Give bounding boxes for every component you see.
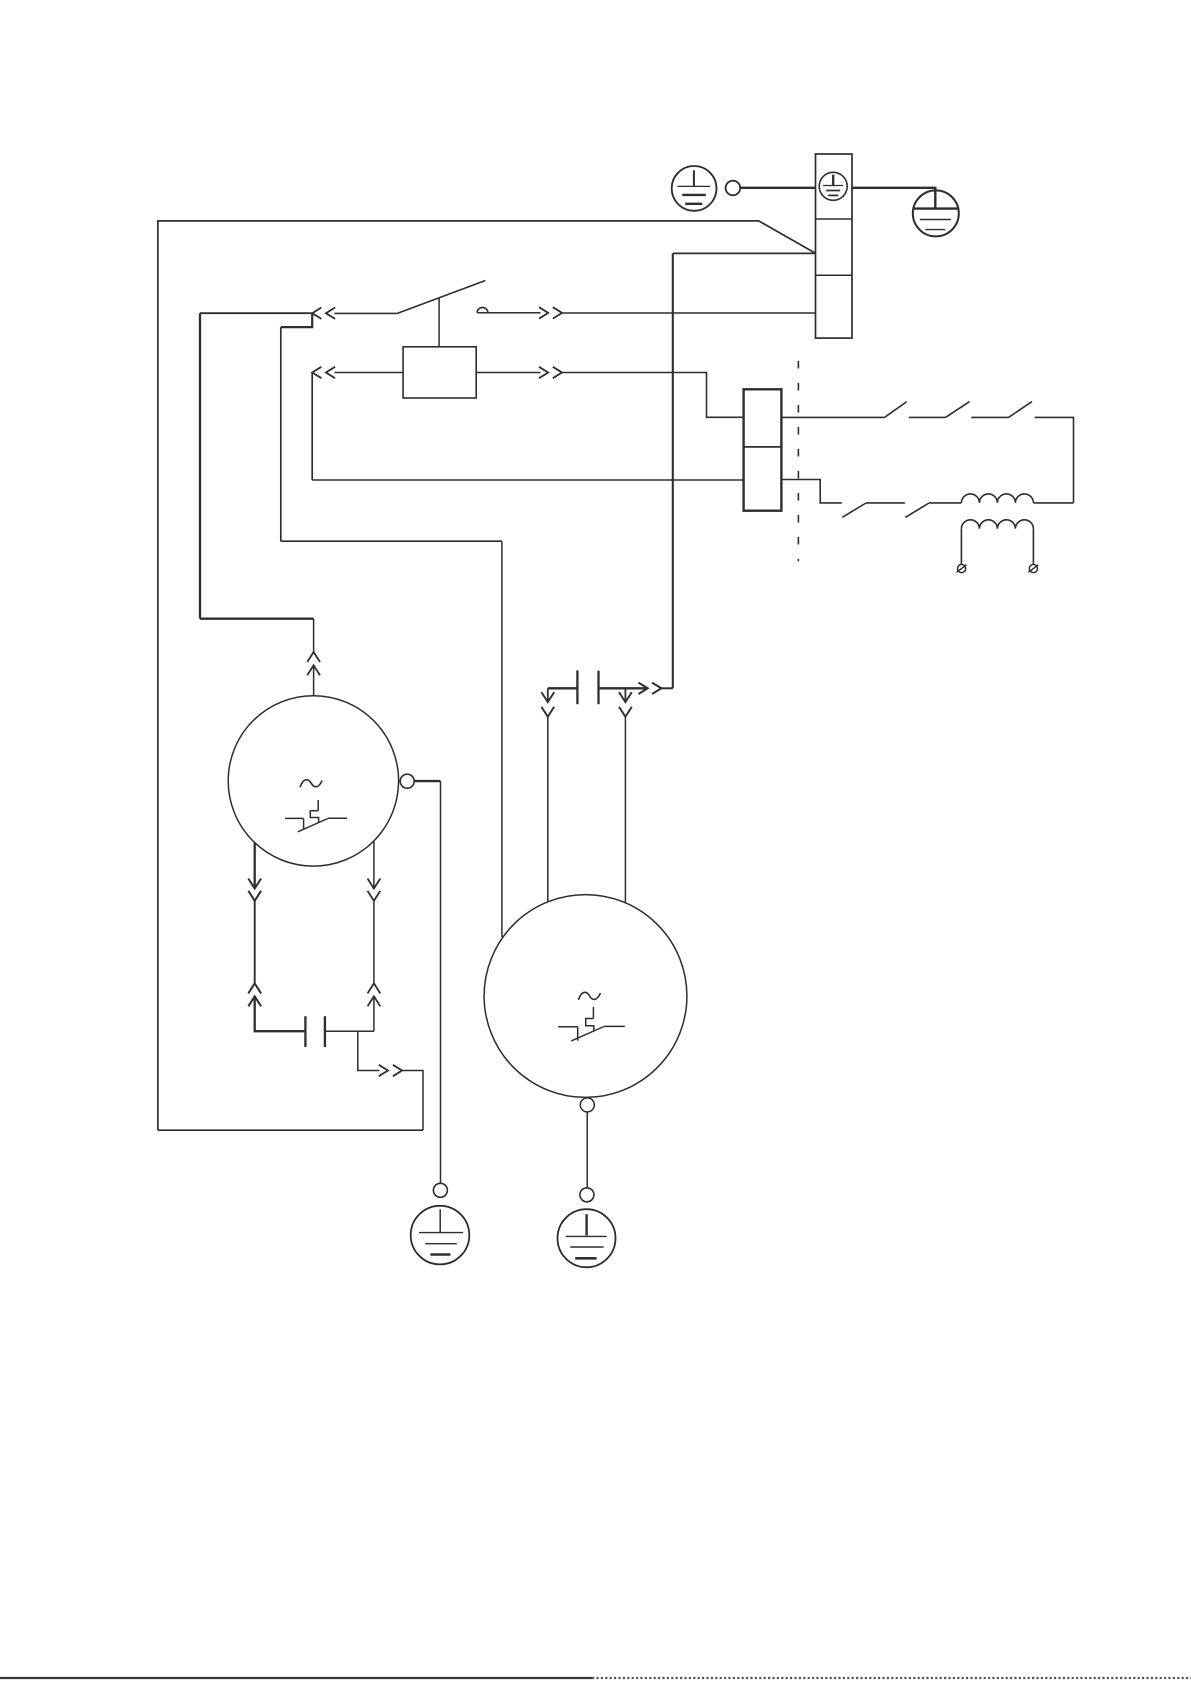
switch S5 blade: [842, 503, 866, 517]
ground symbol G3 (protective earth in circle): [411, 1206, 470, 1265]
switch S1 blade: [397, 281, 486, 314]
switch S4 blade: [1009, 402, 1033, 418]
wire TB1 to ground G2: [852, 188, 935, 208]
connector chevrons C2 junction lead: [619, 692, 632, 717]
connector chevrons C2 right: [639, 683, 662, 694]
control box K1: [403, 347, 476, 398]
motor M1 body: [228, 696, 398, 866]
wire bottom return to left riser: [158, 1129, 423, 1131]
wire between S3 and S4: [971, 416, 1008, 418]
wire TB2 to switch chain: [781, 416, 884, 418]
wire M1 right lead middle: [373, 901, 375, 984]
ground symbol G1 (protective earth in circle): [672, 166, 717, 211]
switch S1 fixed contact bump: [477, 307, 488, 312]
wire ring to TB1: [740, 187, 815, 189]
switch S2 blade: [885, 402, 907, 418]
wire row2 chevron to box: [335, 372, 404, 374]
wire down x=281 to y=541: [280, 327, 282, 541]
inductor L1 primary winding: [961, 494, 1073, 503]
wire M1 left lead middle: [254, 901, 256, 984]
secondary terminal left: [957, 564, 967, 572]
terminal ring: [726, 181, 741, 196]
wire row2 box to chevrons: [476, 372, 540, 374]
terminal block TB2: [744, 389, 782, 510]
wire row2 lower y=480 to terminal block TB2: [312, 479, 743, 481]
wire M1 ring to drop x=440: [414, 780, 440, 782]
wire TB2 lower to chain: [781, 480, 841, 503]
motor M2 bottom terminal ring: [580, 1098, 594, 1112]
wire between S5 and S6: [866, 502, 905, 504]
terminal ring above ground G3: [433, 1183, 447, 1197]
wire row1 to TB1 bottom cell: [562, 312, 816, 314]
wire main loop: left/top feed to terminal block TB1: [158, 221, 816, 1130]
wire row2 to corner x=706: [562, 373, 744, 418]
wire C2 right plate: [599, 687, 646, 689]
connector chevrons M1 left lead lower: [248, 983, 261, 1006]
wire S4 to right corner: [1035, 417, 1074, 502]
switch S3 blade: [946, 402, 970, 418]
capacitor C2: [577, 670, 598, 704]
ground symbol G4 (protective earth in circle): [558, 1209, 616, 1267]
connector chevrons row1 left: [312, 308, 335, 319]
connector chevrons M1 left lead upper: [248, 879, 261, 901]
connector chevrons return: [379, 1065, 402, 1076]
wire box top to switch blade: [438, 298, 440, 347]
wire riser x=673 (C2 to TB1): [672, 253, 674, 688]
motor M2 body: [484, 895, 687, 1098]
wire between S2 and S3: [909, 416, 946, 418]
connector chevrons M1 top: [307, 652, 320, 675]
wire C2 junction lead down: [624, 688, 626, 702]
inductor L1 secondary winding: [961, 520, 1033, 565]
wire C2 left plate: [548, 687, 578, 689]
wire C2 left lead down: [547, 688, 549, 702]
connector chevrons row1 right: [539, 307, 562, 318]
wire into motor M2 top right: [624, 717, 626, 903]
terminal ring above ground G4: [580, 1188, 594, 1202]
wire row1 right of contact: [477, 312, 540, 314]
page rule solid segment: [0, 1677, 592, 1679]
capacitor C1: [305, 1016, 325, 1047]
wire connector to M1 top: [313, 665, 315, 695]
wire M1 right lead to junction: [373, 996, 375, 1031]
switch S6 blade: [906, 503, 930, 517]
wire across y=541 to motor M2 drop: [281, 540, 502, 542]
wire S6 to coil: [929, 502, 961, 504]
protective earth symbol in TB1: [819, 172, 847, 200]
secondary terminal right: [1028, 564, 1038, 572]
wire M2 to ground ring: [586, 1112, 588, 1188]
connector chevrons row2 right: [539, 367, 562, 378]
connector chevrons M1 right lead upper: [368, 879, 381, 901]
wire from capacitor C2 riser to TB1 middle cell: [673, 252, 816, 254]
wire return corner: [402, 1071, 423, 1131]
wire M1 bottom-left lead: [254, 843, 256, 889]
wire lead into connector: [313, 619, 315, 652]
connector chevrons C2 left lead: [541, 692, 554, 717]
wire drop x=440 to ground ring: [440, 781, 442, 1183]
wire drop x=502 into motor M2: [501, 541, 503, 937]
connector chevrons row2 left: [312, 367, 335, 378]
wire row1 left segment: [200, 312, 312, 314]
wire C1 right plate: [325, 1030, 374, 1032]
wire junction drop to return: [358, 1031, 380, 1070]
dashed boundary line: [797, 361, 799, 561]
page rule dashed segment: [592, 1677, 1191, 1679]
motor M1 terminal ring right: [400, 774, 414, 788]
wire jog from row1 junction down-left: [281, 313, 312, 327]
wire M1 left lead to capacitor C1: [255, 996, 306, 1031]
wire into motor M2 top left: [547, 717, 549, 902]
connector chevrons M1 right lead lower: [368, 983, 381, 1006]
wire motor M1 top lead: [200, 313, 314, 619]
motor M1 thermal protector: [285, 800, 347, 832]
motor M2 thermal protector: [558, 1007, 625, 1041]
wire row1 to switch pivot: [335, 312, 397, 314]
motor M2 AC symbol: [578, 992, 600, 1000]
wire chevron to riser corner: [661, 687, 673, 689]
terminal block TB1: [816, 154, 853, 338]
wire row2 left vertical to y=480: [311, 373, 313, 481]
ground symbol G2 (earth in circle): [913, 190, 959, 236]
wire M1 bottom-right lead: [373, 841, 375, 889]
motor M1 AC symbol: [300, 780, 322, 788]
